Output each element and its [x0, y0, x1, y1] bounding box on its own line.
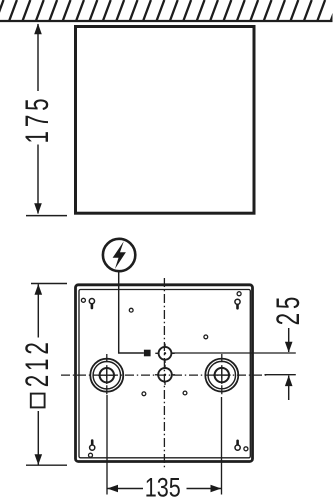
keyhole slot bottom-left — [90, 441, 95, 451]
small hole top-left — [81, 298, 85, 302]
dim 25 line lower — [288, 376, 290, 400]
ceiling hatch — [0, 0, 336, 22]
dim 25 extension line upper — [172, 352, 296, 354]
dim 135 arrow left — [107, 485, 118, 493]
dim 25 extension line lower — [265, 374, 296, 376]
svg-text:135: 135 — [145, 473, 181, 500]
dim 175 line upper segment — [37, 24, 39, 91]
terminal block (black square) — [144, 350, 151, 357]
dim 212 arrow up — [35, 284, 43, 295]
dim 25 arrow up — [285, 375, 293, 386]
dim 135 line left — [108, 488, 144, 490]
small hole bottom-left — [89, 453, 93, 457]
bottom view inner housing — [79, 290, 250, 458]
keyhole slot bottom-right — [235, 441, 240, 450]
horizontal centerline — [61, 374, 268, 376]
lightning bolt — [113, 241, 126, 269]
dim 175 extension tick bottom — [26, 215, 67, 217]
dim 212 line lower segment — [37, 411, 39, 465]
dim 175 arrow up — [34, 24, 42, 35]
cable entry lower — [155, 365, 175, 385]
mounting hole right — [205, 354, 238, 397]
dim 212 tick bottom — [26, 464, 67, 466]
small hole C — [142, 392, 146, 396]
wire from lightning to terminal — [119, 271, 144, 353]
small hole A — [129, 308, 133, 312]
dim 212 arrow down — [35, 454, 43, 465]
dim 212 line upper segment — [37, 284, 39, 337]
small hole top-right — [237, 292, 241, 296]
svg-text:175: 175 — [19, 95, 55, 144]
dim 212 square symbol — [31, 394, 45, 408]
dim 212 tick top — [31, 283, 67, 285]
svg-text:25: 25 — [270, 293, 306, 326]
dim 25 arrow down — [285, 342, 293, 353]
dim 135 extension line right — [221, 397, 223, 495]
mounting hole left — [90, 354, 123, 397]
dim 135 line right — [187, 488, 222, 490]
electrical connection symbol U1 (lightning in circle) — [103, 239, 135, 271]
keyhole slot top-right — [235, 299, 240, 308]
svg-text:212: 212 — [19, 338, 55, 387]
dim 135 arrow right — [211, 485, 222, 493]
keyhole slot top-left — [89, 299, 94, 309]
dim 175 arrow down — [34, 203, 42, 214]
dim 135 extension line left — [106, 395, 108, 495]
vertical centerline — [163, 278, 165, 470]
ceiling line — [0, 20, 333, 22]
side view housing — [76, 27, 255, 214]
small hole D — [183, 391, 187, 395]
small hole B — [204, 335, 208, 339]
cable entry upper — [155, 344, 174, 363]
bottom view outer housing — [76, 285, 253, 462]
dim 175 line lower segment — [37, 145, 39, 214]
dim 25 line upper — [288, 328, 290, 352]
small hole bottom-right — [244, 447, 248, 451]
